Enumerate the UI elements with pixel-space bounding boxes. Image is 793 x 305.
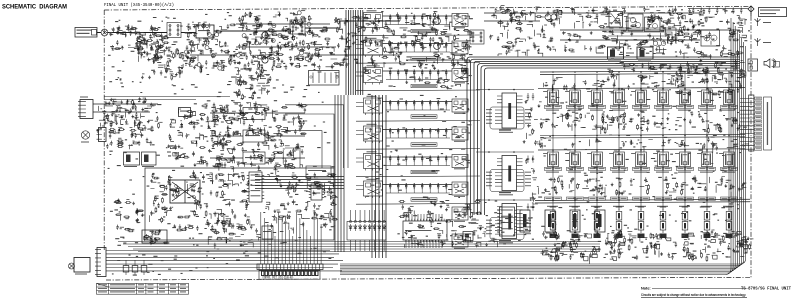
transformer T2 <box>290 20 305 34</box>
LPF relay columns row C <box>550 207 733 234</box>
ferrite bead filters L20-L22 <box>123 260 147 275</box>
svg-text:FINAL UNIT (X45-3540-00)(A/2): FINAL UNIT (X45-3540-00)(A/2) <box>104 3 174 8</box>
wire top chain aux lines <box>190 24 470 60</box>
IC U8 band control with wiring loop <box>476 151 534 195</box>
filter row 6 bottom wire <box>356 175 480 178</box>
capacitor bank C1-C6 <box>137 44 187 81</box>
bottom middle cluster <box>399 199 498 247</box>
band pass filter row 5 relay K5 <box>356 124 480 149</box>
decoupling cluster near CN2 <box>93 97 163 134</box>
CN8 pin label boxes <box>755 97 762 150</box>
transformer T1 <box>167 23 181 38</box>
filter right module row 8 <box>452 207 468 222</box>
filter row 2 input leads <box>356 45 364 49</box>
diode matrix D10-D25 <box>347 210 386 251</box>
IC U1 comparator <box>247 172 264 202</box>
driver amplifier cluster <box>330 12 408 76</box>
filter row 5 input leads <box>356 131 364 135</box>
filter row 6 input leads <box>356 158 364 162</box>
coax plug J1 <box>101 29 108 36</box>
wire loops antenna switch <box>600 28 676 44</box>
IC U2 <box>309 184 324 200</box>
switch diode module D1 <box>124 152 140 167</box>
cluster left of SWR box <box>114 199 144 232</box>
svg-text:SCHEMATIC DIAGRAM: SCHEMATIC DIAGRAM <box>2 4 67 11</box>
LPF feed lines row A <box>540 71 745 75</box>
bottom middle modules <box>520 210 605 232</box>
filter row 4 bottom wire <box>356 120 480 123</box>
filter row 7 ground rail <box>386 192 450 194</box>
interstage network cluster <box>269 26 333 71</box>
IC U10 small box <box>262 226 273 239</box>
relay driver U5 box <box>463 232 473 243</box>
bias network cluster <box>235 52 275 100</box>
board outline frame dash-dot <box>104 6 751 280</box>
ALC amp stage 1 cluster <box>210 101 307 127</box>
connector CN4 bottom-left strip <box>95 248 106 277</box>
wire bus right side loop <box>340 18 746 275</box>
pre-driver stage Q1 cluster <box>184 22 240 74</box>
antenna relay K13 <box>748 59 758 71</box>
directional coupler bridge T4 <box>170 180 200 203</box>
note box <box>641 287 747 298</box>
connector CN2 with pins <box>78 97 93 119</box>
filter row 6 ground rail <box>386 165 450 167</box>
TX output lowpass cluster <box>484 5 547 57</box>
filter right module row 9 <box>452 234 468 249</box>
connector CN3 3-pin <box>97 128 107 142</box>
filter row 7 input leads <box>356 186 364 190</box>
antenna ANT2 <box>755 38 772 46</box>
switch diode module D2 <box>142 152 157 167</box>
wires control connector risers <box>261 212 321 264</box>
LPF mid band cluster <box>537 134 749 153</box>
LPF bus double line <box>535 199 750 203</box>
filter row 5 caps to ground <box>390 134 446 138</box>
filter row 4 input leads <box>356 103 364 107</box>
filter row 5 ground rail <box>386 137 450 139</box>
detector cluster inside SWR box <box>150 170 250 232</box>
LPF cap row A <box>544 74 743 93</box>
transistor Q3 <box>262 32 268 38</box>
SWR detector board box <box>145 168 334 240</box>
LPF relay row A <box>538 88 745 107</box>
LC filter block bottom left <box>142 230 170 245</box>
balun T6 <box>645 17 661 32</box>
wire bus center vertical <box>372 95 386 258</box>
junction dots on grid rails <box>552 71 730 201</box>
filter row 3 bottom wire <box>356 89 480 92</box>
connector TO ANT UNIT box <box>759 8 787 17</box>
connector CN1 TX RX UNIT box <box>75 28 97 38</box>
filter row 4 caps to ground <box>390 106 446 110</box>
CONTROL UNIT box with pin squares <box>259 270 320 279</box>
transformer T7 <box>541 14 562 20</box>
band pass filter row 1 relay K1 <box>356 10 480 35</box>
transistor Q2 <box>262 57 268 63</box>
wire bus right riser <box>467 57 740 215</box>
speaker SP1 <box>764 59 776 68</box>
relay K11 with diode <box>596 47 634 62</box>
IC U7 band control with wiring loop <box>476 89 534 133</box>
wires CN4 to bus <box>106 251 343 271</box>
IC U4 band decoder <box>403 219 447 242</box>
fan motor M1 <box>81 131 90 143</box>
wire bus mid horizontal fan <box>255 177 344 189</box>
relay row label cluster <box>607 62 722 80</box>
output transformer T2 wide <box>309 71 340 86</box>
filter row 5 bottom wire <box>356 148 480 151</box>
crystal filter X1 box <box>179 108 191 117</box>
filter box above U2 <box>306 166 331 178</box>
wire bundle left of filter bank <box>335 10 363 252</box>
band pass filter row 7 relay K7 <box>356 179 480 204</box>
antenna relay K10 box <box>609 12 623 28</box>
filter row 1 input leads <box>356 17 364 21</box>
filter row 2 caps to ground <box>390 48 446 52</box>
driver stage Q2 Q3 cluster <box>236 10 316 67</box>
antenna matching cluster <box>675 8 746 96</box>
LPF grid label text row C <box>545 197 738 238</box>
buffer stage cluster <box>167 100 240 167</box>
filter row 7 bottom wire <box>356 203 480 206</box>
ALC amp stage 2 cluster <box>210 124 307 150</box>
cluster below SWR box <box>206 213 261 249</box>
FINAL-CONTROL UNIT vertical label box <box>764 97 772 150</box>
IC Q1 box <box>196 25 214 38</box>
speaker terminal box <box>774 62 780 68</box>
antenna ANT1 <box>755 18 772 26</box>
ALC amp stage 3 cluster <box>210 145 305 175</box>
SWR sensor module <box>69 258 91 275</box>
cluster around center ICs <box>523 100 542 204</box>
LPF relay row B <box>538 149 745 169</box>
LPF row B component cluster <box>537 167 746 198</box>
output transformer T3 <box>470 30 484 44</box>
connector CN5 CONTROL UNIT strip <box>257 264 323 270</box>
relay K12 with diode <box>637 47 664 62</box>
wire bus control horizontal <box>118 242 600 252</box>
filter row 1 ground rail <box>386 24 450 26</box>
band pass filter row 2 relay K2 <box>356 38 480 63</box>
svg-text:TS-870S/SG FINAL UNIT: TS-870S/SG FINAL UNIT <box>741 287 791 292</box>
filter row 1 bottom wire <box>356 34 480 37</box>
LPF row C driver cluster <box>540 229 753 263</box>
filter row 3 ground rail <box>386 79 450 81</box>
filter row 3 input leads <box>356 72 364 76</box>
svg-text:CONTROL UNIT (X53-3100-00): CONTROL UNIT (X53-3100-00) <box>263 276 294 280</box>
thermal sensor cluster <box>106 127 152 149</box>
connector CN8 edge strip <box>749 95 754 151</box>
filter row 2 bottom wire <box>356 62 480 65</box>
reference table <box>97 283 189 294</box>
filter row 1 caps to ground <box>390 21 446 25</box>
capacitor row C40-C45 top right <box>688 8 748 14</box>
output network cluster top right <box>545 6 696 54</box>
filter row 2 ground rail <box>386 51 450 53</box>
band pass filter row 4 relay K4 <box>356 96 480 121</box>
LPF inter-row wiring <box>553 74 729 210</box>
RF input network cluster <box>109 24 169 51</box>
filter row 4 ground rail <box>386 109 450 111</box>
filter row 6 caps to ground <box>390 162 446 166</box>
IC U6 near control <box>497 207 516 236</box>
svg-text:Circuits are subject to change: Circuits are subject to change without n… <box>641 293 746 297</box>
wire RF input chain main line <box>97 21 400 33</box>
wire feedback loop corners <box>285 95 348 168</box>
antenna tuner box <box>701 30 720 46</box>
filter row 3 caps to ground <box>390 76 446 80</box>
band pass filter row 3 relay K3 <box>356 65 480 90</box>
component value labels field <box>106 7 750 275</box>
band pass filter row 6 relay K6 <box>356 151 480 176</box>
svg-text:Note:: Note: <box>641 287 651 291</box>
coax plug J2 <box>748 6 754 16</box>
filter row 7 caps to ground <box>390 189 446 193</box>
op-amp U3 cluster <box>265 172 338 233</box>
final transistors Q4 Q5 <box>405 11 471 89</box>
LPF row A component cluster <box>540 105 741 134</box>
transistor pair Q10 Q11 <box>653 41 665 45</box>
wire mid-left feed <box>104 97 230 100</box>
wire antenna feed lines <box>545 13 740 40</box>
wires to CN8 pins <box>740 99 749 150</box>
wires IC U4 pins <box>406 214 442 248</box>
balun T5 <box>628 14 643 31</box>
IC U9 band control with wiring loop <box>476 199 534 243</box>
